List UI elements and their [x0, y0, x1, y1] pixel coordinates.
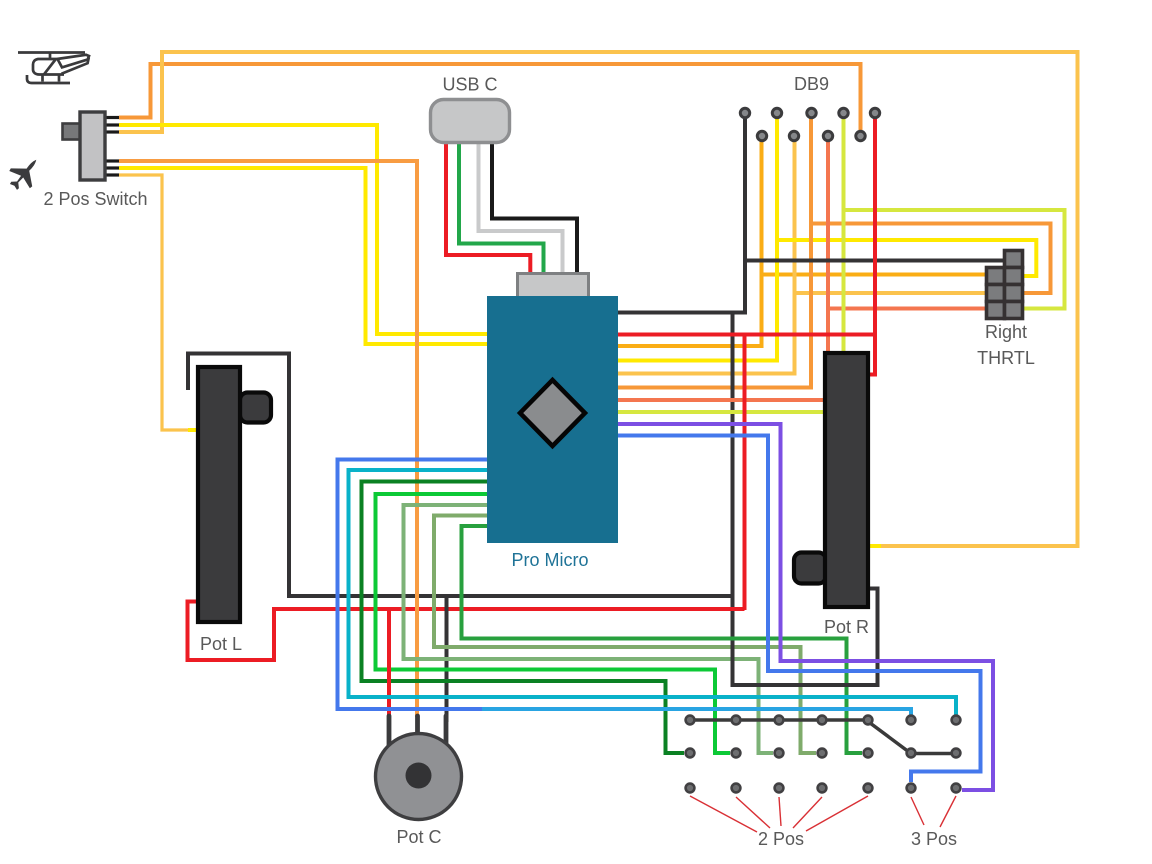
svg-text:2 Pos Switch: 2 Pos Switch	[43, 189, 147, 209]
svg-text:Pot C: Pot C	[396, 827, 441, 847]
svg-text:Pot L: Pot L	[200, 634, 242, 654]
svg-text:Right: Right	[985, 322, 1027, 342]
svg-text:THRTL: THRTL	[977, 348, 1035, 368]
svg-text:USB C: USB C	[442, 75, 497, 95]
svg-text:3 Pos: 3 Pos	[911, 829, 957, 849]
svg-text:DB9: DB9	[794, 74, 829, 94]
svg-text:Pro Micro: Pro Micro	[511, 550, 588, 570]
svg-text:Pot R: Pot R	[824, 617, 869, 637]
svg-text:2 Pos: 2 Pos	[758, 829, 804, 849]
